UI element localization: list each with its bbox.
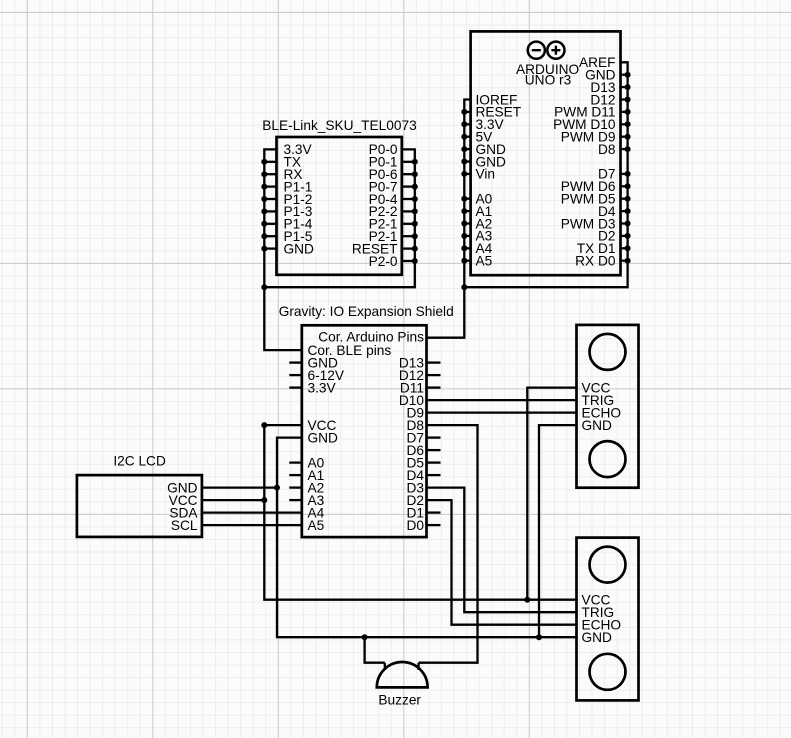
U1 right bus junction dots xyxy=(625,72,631,264)
svg-text:A5: A5 xyxy=(308,518,325,533)
wire U2 right bus xyxy=(264,149,415,287)
S2 pin labels xyxy=(582,593,622,646)
wire BZ1 left lead to GND net xyxy=(365,637,385,663)
module U2 BLE-Link_SKU_TEL0073 body xyxy=(277,137,402,275)
junction U1 buses at bottom xyxy=(461,284,467,290)
svg-text:SCL: SCL xyxy=(171,518,198,533)
svg-text:GND: GND xyxy=(582,418,613,433)
svg-text:Vin: Vin xyxy=(476,167,496,182)
junction U4 VCC on VCC net xyxy=(261,497,267,503)
U2 right pin labels xyxy=(352,142,398,269)
wire U4 SCL to U3 A5 xyxy=(202,524,302,526)
U3 left pin labels xyxy=(308,355,345,533)
wire U3 D2 to S2 ECHO xyxy=(427,500,577,625)
wire S1 VCC branch xyxy=(527,388,576,600)
wire U4 SDA to U3 A4 xyxy=(202,511,302,513)
wire U3 D10 to S1 TRIG xyxy=(427,399,577,401)
S2 transducer circle top xyxy=(590,547,626,583)
wire U4 VCC to VCC net xyxy=(202,499,264,501)
svg-text:GND: GND xyxy=(284,241,315,256)
U4 title xyxy=(113,454,166,469)
svg-text:D0: D0 xyxy=(407,518,425,533)
wire U4 GND to GND net xyxy=(202,486,277,488)
sensor S1 ultrasonic body xyxy=(577,325,639,488)
svg-text:UNO r3: UNO r3 xyxy=(525,73,572,88)
svg-text:BLE-Link_SKU_TEL0073: BLE-Link_SKU_TEL0073 xyxy=(262,118,417,133)
U2 right bus junction dots xyxy=(412,159,418,264)
buzzer BZ1 dome xyxy=(377,662,428,687)
U1 left pin stubs xyxy=(464,112,470,261)
junction VCC net with S1 VCC branch xyxy=(524,597,530,603)
wire U3 D9 to S1 ECHO xyxy=(427,411,577,413)
svg-text:RX D0: RX D0 xyxy=(575,254,616,269)
U2 left pin labels xyxy=(284,142,315,256)
U3 pin label Cor. BLE pins xyxy=(308,343,392,358)
U3 title xyxy=(279,304,454,319)
svg-text:D8: D8 xyxy=(598,142,616,157)
MCU U1 Arduino UNO r3 body xyxy=(471,31,621,275)
BZ1 label xyxy=(378,693,421,708)
U3 pin label Cor. Arduino Pins xyxy=(318,330,424,345)
wire U1 left bus to shield Cor. Arduino Pins xyxy=(427,100,471,338)
svg-text:A5: A5 xyxy=(476,254,493,269)
BZ1 left lead notch xyxy=(384,663,386,670)
sensor S2 ultrasonic body xyxy=(577,538,639,701)
junction GND net with BZ1 lead xyxy=(362,634,368,640)
wire U3 D8 to BZ1 right lead xyxy=(419,425,478,663)
wire U1 right bus xyxy=(464,62,627,287)
display U4 I2C LCD body xyxy=(77,475,202,537)
U2 left pin stubs xyxy=(264,162,276,249)
S1 transducer circle top xyxy=(590,334,626,370)
S2 transducer circle bottom xyxy=(590,654,626,690)
svg-text:3.3V: 3.3V xyxy=(308,380,337,395)
svg-text:GND: GND xyxy=(308,430,339,445)
U1 left pin labels xyxy=(476,92,522,268)
U1 left bus junction dots xyxy=(461,109,467,264)
shield U3 Gravity IO Expansion body xyxy=(302,325,427,537)
junction U2 buses at bottom xyxy=(261,284,267,290)
U3 right pin labels xyxy=(399,355,424,533)
U3 right unconnected stubs xyxy=(427,363,441,525)
S1 transducer circle bottom xyxy=(590,441,626,477)
wire S1 GND branch xyxy=(539,425,577,637)
svg-text:GND: GND xyxy=(582,630,613,645)
svg-text:I2C LCD: I2C LCD xyxy=(113,454,166,469)
junction VCC at U3 pin corner xyxy=(261,422,267,428)
U1 right pin stubs xyxy=(621,75,628,261)
U2 title xyxy=(262,118,417,133)
wire VCC net: U3 VCC to S2 VCC xyxy=(264,425,576,600)
wire GND net: U3 GND to S2 GND xyxy=(277,438,577,638)
U3 left unconnected stubs xyxy=(289,363,302,501)
junction U4 GND on GND net xyxy=(274,485,280,491)
BZ1 right lead notch xyxy=(417,663,419,670)
wire U2 left bus to shield Cor. BLE pins xyxy=(264,149,302,350)
wire U3 D3 to S2 TRIG xyxy=(427,488,577,613)
junction GND net with S1 GND branch xyxy=(536,634,542,640)
S1 pin labels xyxy=(582,380,622,433)
svg-text:P2-0: P2-0 xyxy=(369,254,398,269)
U2 left bus junction dots xyxy=(261,159,267,252)
U4 pin labels xyxy=(167,480,198,533)
U1 title text xyxy=(516,62,579,88)
Arduino logo on U1 xyxy=(528,42,565,59)
U1 right pin labels xyxy=(553,55,616,268)
svg-text:Gravity: IO Expansion Shield: Gravity: IO Expansion Shield xyxy=(279,304,454,319)
U2 right pin stubs xyxy=(402,162,415,261)
svg-text:Buzzer: Buzzer xyxy=(378,693,421,708)
